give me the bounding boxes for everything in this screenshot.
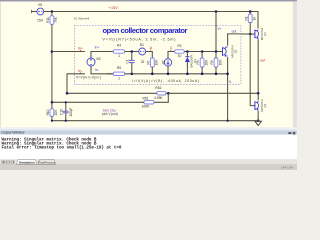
svg-text:PostProcess: PostProcess [38,160,55,164]
capacitor C1 [125,52,144,74]
wire R52 junction down to R51 wire [154,93,168,102]
log area [0,135,297,160]
junction B2 bottom [167,73,170,76]
svg-text:Q1: Q1 [263,32,267,36]
svg-text:B2: B2 [162,60,166,64]
tab PostProcess [38,159,56,164]
Q2 emitter wire down to ground rail (V-) [227,57,229,120]
red net label anchor C [170,50,171,51]
resistor R7 10K [146,58,158,74]
junction C1 top [131,50,134,53]
resistor R52 4.99K [154,86,166,100]
svg-text:R1: R1 [245,16,249,20]
junction D1 top [186,50,189,53]
internal top wire In+ [91,52,139,59]
junction R9 bottom [215,73,218,76]
wire node C corner down to B2 [168,52,175,59]
transistor Q3 [255,99,267,112]
resistor R1 1K [245,12,257,34]
svg-text:V-: V- [229,80,232,84]
svg-text:.IC V(In+)=3: .IC V(In+)=3 [74,17,90,21]
tab bar [0,159,297,165]
svg-text:20K: 20K [204,59,208,66]
capacitor C10 100pF [60,101,73,120]
junction R3 bottom [201,73,204,76]
resistor R3 20K [196,52,208,74]
svg-text:1µ: 1µ [178,54,182,58]
red net label anchor In+ [80,50,81,51]
svg-text:V=V(In+)-V(In-): V=V(In+)-V(In-) [76,76,101,80]
svg-text:4.99K: 4.99K [154,96,163,100]
svg-text:15V: 15V [37,18,44,22]
svg-text:R3: R3 [196,60,200,64]
svg-text:100K: 100K [142,105,151,109]
Q1 emitter wire down to out node [257,39,259,93]
resistor R51 100K [52,96,154,108]
svg-text:Simulation: Simulation [19,160,35,164]
svg-text:V=if(I(R7)<50uA, 2.5m, -2.5m): V=if(I(R7)<50uA, 2.5m, -2.5m) [103,38,176,42]
svg-text:R2: R2 [177,44,181,48]
internal bottom wire [91,66,228,74]
resistor R2 1u [175,44,223,58]
wire: R11 down to In+ node and lower node [51,24,53,102]
junction D1 bottom [186,73,189,76]
svg-text:open collector comparator: open collector comparator [103,26,188,35]
voltage source V5 [32,3,44,22]
svg-text:100pF: 100pF [69,107,73,116]
junction C1 bottom [131,73,134,76]
svg-text:C1: C1 [125,59,129,63]
V+ tap wire from rail into box [215,12,217,52]
svg-text:R51: R51 [142,96,148,100]
junction on rail at V5/R11 [51,10,54,13]
dashed subcircuit box [75,26,241,85]
junction In- corner [66,92,69,95]
status bar [0,165,297,170]
wire B1 to node A corner, down to R7 [146,52,153,59]
junction R9 top [215,50,218,53]
out wire from box to Q1 base [241,33,255,35]
wire In+ to box [52,51,85,53]
junction on rail at R1 [249,10,252,13]
svg-text:R4: R4 [117,44,121,48]
junction Q1 emitter / Q3 collector [257,92,260,95]
svg-text:out: out [260,58,265,62]
svg-text:LAP CVR: LAP CVR [281,166,293,170]
svg-text:Fatal error: Timestep too smal: Fatal error: Timestep too small(1.25e-19… [2,146,122,151]
transistor Q1 [255,27,267,40]
wire In- external: corner to box [67,74,85,94]
Q2 collector wire to out port [228,34,241,46]
Q3 emitter wire [257,111,259,121]
junction R3 top [201,50,204,53]
svg-text:C: C [170,46,173,50]
resistor R9 10K [210,52,222,74]
svg-text:R7: R7 [146,60,150,64]
source B3 [87,57,101,66]
svg-text:R10: R10 [46,109,50,115]
svg-text:In+: In+ [78,47,83,51]
vertical wire out-port node down to Q3 base [250,34,255,106]
svg-text:R9: R9 [210,60,214,64]
red net label anchor A [150,49,151,50]
source B1 [139,43,146,55]
svg-text:R5: R5 [117,66,121,70]
node In+ junction [51,50,54,53]
svg-text:R11: R11 [46,17,50,23]
red net label anchor In- [80,72,81,73]
tab Simulation (active) [16,159,37,164]
title bar [0,127,297,134]
resistor R10 10K [46,102,58,120]
svg-text:In-: In- [95,68,99,72]
resistor R4 1 [113,44,124,58]
junction divider node [51,101,54,104]
ground symbol [255,121,261,125]
svg-text:1: 1 [118,76,120,80]
svg-text:10K: 10K [155,59,159,66]
svg-text:C10: C10 [60,109,64,115]
svg-text:V+: V+ [217,27,221,31]
junction out/R1/base [249,33,252,36]
svg-text:V5: V5 [38,3,42,7]
svg-text:out: out [232,29,237,33]
window chrome background [0,0,297,170]
svg-text:10K: 10K [54,109,58,116]
svg-text:B1: B1 [140,43,144,47]
svg-text:10K: 10K [218,59,222,66]
junction on rail at V+ tap [215,10,218,13]
svg-text:B3: B3 [97,57,101,61]
out feedback wire y=93.3 [67,92,157,94]
svg-text:1p: 1p [140,60,144,64]
ground rail [52,120,258,122]
svg-text:75K: 75K [54,16,58,23]
Q3 collector wire [257,93,259,100]
svg-text:I=if(V(A)>V(B), -400uA, 200uA): I=if(V(A)>V(B), -400uA, 200uA) [132,79,199,83]
svg-text:plot V(out): plot V(out) [102,112,118,116]
junction emitter / V- wire [226,73,229,76]
transistor Q2 [223,45,238,58]
resistor R11 75K [46,12,58,25]
svg-text:Q3: Q3 [263,103,267,107]
top +15V rail [44,12,258,29]
diode D1 [185,52,197,74]
svg-text:1: 1 [118,54,120,58]
current source B2 [162,59,172,74]
svg-text:Output Window: Output Window [1,130,25,134]
svg-text:In+: In+ [95,46,100,50]
junction R7 bottom [151,73,154,76]
svg-text:R52: R52 [155,86,161,90]
junction R52 right [167,92,170,95]
svg-text:+15V: +15V [109,6,119,10]
resistor R5 1 [107,66,125,80]
schematic canvas [1,2,293,127]
svg-text:Q2: Q2 [234,49,238,53]
